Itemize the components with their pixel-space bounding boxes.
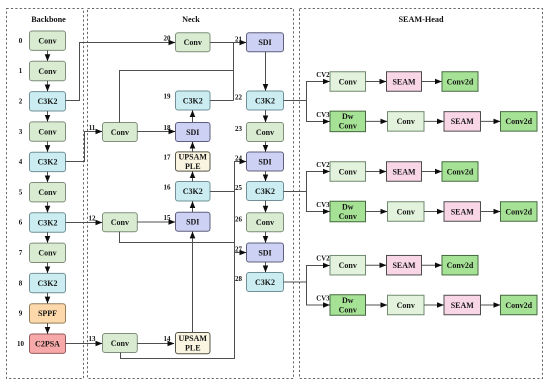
svg-text:Conv: Conv <box>111 128 129 137</box>
svg-text:0: 0 <box>19 37 23 45</box>
head row 6 Dw Conv <box>330 295 366 316</box>
head row 5 Conv2d <box>442 255 478 275</box>
svg-text:2: 2 <box>19 98 23 106</box>
wire c3k2-22 -> conv23 <box>265 110 267 122</box>
svg-text:Neck: Neck <box>182 15 200 24</box>
svg-text:11: 11 <box>89 124 96 132</box>
svg-text:Conv2d: Conv2d <box>505 207 532 216</box>
backbone block 0 Conv <box>30 31 66 50</box>
wire conv12 bottom loop to bus B <box>120 232 235 243</box>
neck block 27 SDI <box>247 243 284 262</box>
svg-text:25: 25 <box>235 184 243 192</box>
wire backbone 7->8 <box>47 263 49 273</box>
svg-text:Conv2d: Conv2d <box>505 301 532 310</box>
svg-text:Conv2d: Conv2d <box>447 77 474 86</box>
wire backbone 5->6 <box>47 202 49 212</box>
wire sdi18 -> c3k2-19 <box>192 111 194 123</box>
svg-text:Conv: Conv <box>339 212 357 221</box>
svg-text:Conv: Conv <box>38 249 56 258</box>
svg-text:C3K2: C3K2 <box>255 96 275 105</box>
svg-text:C3K2: C3K2 <box>255 278 275 287</box>
svg-text:C2PSA: C2PSA <box>35 340 60 349</box>
svg-text:Conv: Conv <box>339 122 357 131</box>
svg-text:SDI: SDI <box>186 218 199 227</box>
svg-text:Conv: Conv <box>38 67 56 76</box>
wire branch -> head row4 <box>307 192 330 212</box>
wire head row 1 seg 1 <box>366 81 387 83</box>
wire backbone 6->7 <box>47 232 49 242</box>
svg-text:SDI: SDI <box>258 157 271 166</box>
svg-text:Dw: Dw <box>342 202 354 211</box>
svg-text:19: 19 <box>164 93 172 101</box>
wire c3k2-25 -> head branch <box>284 191 307 193</box>
svg-text:CV2: CV2 <box>316 256 330 263</box>
svg-text:20: 20 <box>164 34 172 42</box>
head row 4 Conv <box>388 202 425 222</box>
wire branch -> head row5 <box>307 266 330 283</box>
svg-text:SEAM: SEAM <box>451 301 475 310</box>
head row 5 Conv <box>330 255 366 275</box>
wire conv13 loop + bus B -> sdi24 <box>121 162 247 359</box>
neck block 19 C3K2 <box>176 91 211 110</box>
wire branch -> head row2 <box>307 101 330 122</box>
neck block 17 UPSAM/PLE <box>176 152 211 171</box>
backbone block 10 C2PSA <box>30 334 66 353</box>
wire sdi27 -> c3k2-28 <box>265 262 267 272</box>
head row 6 Conv <box>388 295 425 315</box>
neck block 21 SDI <box>247 33 284 52</box>
head row 1 Conv <box>330 72 366 92</box>
svg-text:C3K2: C3K2 <box>183 96 203 105</box>
svg-text:UPSAM: UPSAM <box>179 152 208 161</box>
svg-text:SEAM: SEAM <box>392 261 416 270</box>
svg-text:Dw: Dw <box>342 296 354 305</box>
wire bus A vertical <box>233 43 235 101</box>
wire backbone4 -> conv11 <box>66 132 103 162</box>
svg-text:CV2: CV2 <box>316 162 330 169</box>
svg-text:C3K2: C3K2 <box>38 97 58 106</box>
neck block 22 C3K2 <box>247 91 284 110</box>
svg-text:Conv: Conv <box>38 188 56 197</box>
svg-text:Conv: Conv <box>339 305 357 314</box>
svg-text:SEAM-Head: SEAM-Head <box>398 15 443 24</box>
svg-text:SDI: SDI <box>258 248 271 257</box>
wire backbone 1->2 <box>47 81 49 91</box>
wire sdi15 -> c3k2-16 <box>192 202 194 213</box>
neck block 15 SDI <box>176 212 211 231</box>
svg-text:17: 17 <box>164 154 172 162</box>
wire upsample17 -> sdi18 <box>192 142 194 152</box>
wire backbone 2->3 <box>47 111 49 121</box>
svg-text:CV3: CV3 <box>316 296 330 303</box>
head row 6 Conv2d <box>501 295 538 315</box>
wire head row 6 seg 3 <box>481 304 501 306</box>
svg-text:Conv: Conv <box>38 127 56 136</box>
wire head row 1 seg 2 <box>422 81 442 83</box>
backbone block 3 Conv <box>30 122 66 141</box>
svg-text:Conv2d: Conv2d <box>447 261 474 270</box>
svg-text:PLE: PLE <box>185 162 201 171</box>
head row 2 Conv2d <box>501 112 538 131</box>
svg-text:C3K2: C3K2 <box>38 279 58 288</box>
wire branch -> head row6 <box>307 282 330 305</box>
svg-text:Conv: Conv <box>339 77 357 86</box>
wire conv13 -> upsample14 <box>137 343 174 345</box>
head row 2 SEAM <box>444 112 481 131</box>
neck block 18 SDI <box>176 123 211 142</box>
svg-text:7: 7 <box>19 249 23 257</box>
svg-text:26: 26 <box>235 215 243 223</box>
wire head row 4 seg 2 <box>424 211 444 213</box>
neck conv 12 <box>103 213 138 232</box>
head row 4 SEAM <box>444 202 481 222</box>
svg-text:C3K2: C3K2 <box>255 187 275 196</box>
wire c3k2-25 -> conv26 <box>265 201 267 213</box>
svg-text:8: 8 <box>19 279 23 287</box>
svg-text:22: 22 <box>235 94 243 102</box>
svg-text:12: 12 <box>89 214 97 222</box>
svg-text:PLE: PLE <box>185 343 201 352</box>
wire conv11 top loop to bus A <box>120 71 234 123</box>
svg-text:SEAM: SEAM <box>451 117 475 126</box>
neck block 23 Conv <box>247 123 284 142</box>
head row 6 SEAM <box>444 295 481 315</box>
svg-text:Conv: Conv <box>397 117 415 126</box>
wire head row 2 seg 3 <box>481 120 501 122</box>
backbone block 7 Conv <box>30 243 66 262</box>
svg-text:16: 16 <box>164 183 172 191</box>
svg-text:SEAM: SEAM <box>392 77 416 86</box>
head row 3 SEAM <box>387 162 422 182</box>
wire sdi21 -> c3k2-22 <box>265 52 267 91</box>
wire c3k2-16 -> upsample17 <box>192 172 194 182</box>
wire c3k2-19 out to bus A <box>210 100 234 102</box>
wire conv20 -> sdi21 <box>210 42 246 44</box>
wire head row 4 seg 1 <box>366 211 388 213</box>
wire c2psa -> conv13 <box>66 343 103 345</box>
wire bus B -> sdi27 <box>235 252 247 254</box>
wire sdi24 -> c3k2-25 <box>265 171 267 181</box>
svg-text:15: 15 <box>164 214 172 222</box>
backbone block 6 C3K2 <box>30 213 66 232</box>
svg-text:Conv: Conv <box>184 38 202 47</box>
head row 1 SEAM <box>387 72 422 92</box>
neck block 25 C3K2 <box>247 182 284 201</box>
wire head row 5 seg 2 <box>422 264 442 266</box>
svg-text:1: 1 <box>19 67 23 75</box>
neck block 14 UPSAM/PLE <box>176 333 211 354</box>
svg-text:Conv: Conv <box>111 218 129 227</box>
wire c3k2-28 -> head branch <box>284 281 307 283</box>
svg-text:Conv: Conv <box>111 339 129 348</box>
wire backbone 0->1 <box>47 50 49 60</box>
svg-text:9: 9 <box>19 310 23 318</box>
svg-text:C3K2: C3K2 <box>183 187 203 196</box>
svg-text:5: 5 <box>19 188 23 196</box>
neck block 26 Conv <box>247 213 284 232</box>
svg-text:Conv2d: Conv2d <box>447 167 474 176</box>
wire head row 2 seg 2 <box>424 120 444 122</box>
wire backbone 8->9 <box>47 293 49 303</box>
svg-text:C3K2: C3K2 <box>38 218 58 227</box>
svg-text:Conv: Conv <box>256 128 274 137</box>
wire head row 2 seg 1 <box>366 120 388 122</box>
svg-text:4: 4 <box>19 158 23 166</box>
neck block 20 Conv <box>176 33 211 52</box>
backbone block 5 Conv <box>30 183 66 202</box>
svg-text:18: 18 <box>164 124 172 132</box>
wire head row 4 seg 3 <box>481 211 501 213</box>
neck conv 13 <box>103 334 138 353</box>
wire c3k2-22 -> head branch <box>284 100 307 102</box>
wire upsample14 -> sdi15 <box>192 232 194 333</box>
wire conv23 -> sdi24 <box>265 142 267 152</box>
svg-text:C3K2: C3K2 <box>38 158 58 167</box>
head row 4 Dw Conv <box>330 201 366 222</box>
svg-text:Dw: Dw <box>342 112 354 121</box>
backbone container <box>7 9 84 379</box>
backbone block 2 C3K2 <box>30 92 66 111</box>
svg-text:10: 10 <box>17 340 25 348</box>
svg-text:3: 3 <box>19 128 23 136</box>
seam-head container <box>300 9 543 379</box>
svg-text:Conv: Conv <box>256 218 274 227</box>
svg-text:Backbone: Backbone <box>31 15 66 24</box>
wire head row 3 seg 1 <box>366 171 387 173</box>
wire backbone2 -> conv20 <box>66 43 176 101</box>
backbone block 9 SPPF <box>30 304 66 323</box>
wire c3k2-16 out to bus B <box>210 191 235 193</box>
neck container <box>88 9 294 379</box>
neck block 24 SDI <box>247 152 284 171</box>
svg-text:Conv2d: Conv2d <box>505 117 532 126</box>
head row 2 Conv <box>388 112 425 131</box>
svg-text:Conv: Conv <box>397 301 415 310</box>
neck conv 11 <box>103 123 138 142</box>
svg-text:SDI: SDI <box>186 128 199 137</box>
head row 5 SEAM <box>387 255 422 275</box>
svg-text:23: 23 <box>235 125 243 133</box>
head row 2 Dw Conv <box>330 111 366 131</box>
backbone block 1 Conv <box>30 61 66 80</box>
svg-text:Conv: Conv <box>38 37 56 46</box>
wire backbone 4->5 <box>47 172 49 182</box>
backbone block 4 C3K2 <box>30 152 66 171</box>
svg-text:UPSAM: UPSAM <box>179 334 208 343</box>
wire head row 6 seg 1 <box>366 304 388 306</box>
wire backbone6 -> conv12 <box>66 222 103 224</box>
head row 1 Conv2d <box>442 72 478 92</box>
wire conv26 -> sdi27 <box>265 232 267 243</box>
wire head row 5 seg 1 <box>366 264 387 266</box>
neck block 16 C3K2 <box>176 182 211 202</box>
svg-text:CV3: CV3 <box>316 112 330 119</box>
backbone block 8 C3K2 <box>30 273 66 292</box>
svg-text:SEAM: SEAM <box>392 167 416 176</box>
svg-text:28: 28 <box>235 275 243 283</box>
wire backbone 3->4 <box>47 141 49 151</box>
svg-text:Conv: Conv <box>339 261 357 270</box>
head row 3 Conv <box>330 162 366 182</box>
svg-text:SDI: SDI <box>258 38 271 47</box>
wire branch -> head row1 <box>307 82 330 101</box>
head row 4 Conv2d <box>501 202 538 222</box>
wire head row 6 seg 2 <box>424 304 444 306</box>
wire conv12 -> sdi15 <box>137 221 175 223</box>
svg-text:6: 6 <box>19 219 23 227</box>
svg-text:SEAM: SEAM <box>451 207 475 216</box>
wire conv11 -> sdi18 <box>137 131 175 133</box>
svg-text:14: 14 <box>164 335 172 343</box>
wire head row 3 seg 2 <box>422 171 442 173</box>
head row 3 Conv2d <box>442 162 478 182</box>
svg-text:Conv: Conv <box>339 167 357 176</box>
svg-text:CV2: CV2 <box>316 72 330 79</box>
wire branch -> head row3 <box>307 172 330 192</box>
svg-text:SPPF: SPPF <box>38 309 57 318</box>
svg-text:CV3: CV3 <box>316 202 330 209</box>
neck block 28 C3K2 <box>247 273 284 292</box>
wire backbone 9->10 <box>47 323 49 333</box>
svg-text:13: 13 <box>89 335 97 343</box>
svg-text:Conv: Conv <box>397 207 415 216</box>
